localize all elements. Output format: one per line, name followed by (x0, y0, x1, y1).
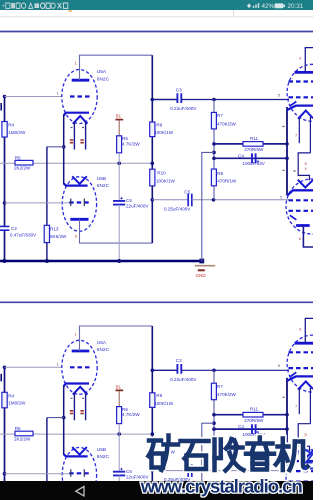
svg-text:3: 3 (299, 56, 302, 61)
svg-text:R8: R8 (156, 122, 162, 127)
op tube U5B envelope (62, 177, 96, 232)
resistor R4 (2, 122, 7, 138)
wire R7 R9 column (213, 100, 215, 200)
svg-text:5: 5 (278, 92, 281, 97)
svg-text:2K2/2W: 2K2/2W (14, 166, 31, 171)
capacitor C2 plates (0, 226, 9, 230)
svg-text:U5B: U5B (97, 176, 106, 182)
resistor R13 tail (44, 225, 49, 242)
node plate column C3 (151, 98, 155, 102)
node cathode net top (212, 142, 216, 146)
node C6 ground (117, 259, 121, 263)
svg-text:C5: C5 (184, 189, 190, 194)
resistor R10 (150, 169, 155, 186)
svg-text:R7: R7 (217, 113, 223, 118)
svg-text:6: 6 (75, 234, 78, 239)
svg-text:C6: C6 (126, 198, 132, 203)
node tail ground (45, 259, 49, 263)
V1 g2 dashes (289, 80, 314, 82)
resistor R6 (117, 136, 122, 153)
node grid bus mid (3, 201, 7, 205)
wire C3 to grid (181, 99, 289, 101)
wire heater legs V1 (299, 117, 310, 153)
svg-text:5K6/2W: 5K6/2W (50, 234, 67, 239)
U5A grid dashes (70, 95, 90, 97)
node R5 bus R8 (151, 162, 155, 166)
svg-text:R4: R4 (8, 123, 14, 128)
V2 g3 dashes (289, 210, 314, 212)
wire U5A heater legs (74, 122, 85, 150)
ground bus (0, 260, 202, 263)
node cathode net bot (212, 157, 216, 161)
svg-text:R9: R9 (217, 171, 223, 176)
wire gnd link (202, 152, 214, 261)
node grid bus ground (3, 259, 7, 263)
wire V2 plate lead (303, 226, 313, 248)
node grid bus top (3, 95, 7, 99)
wire C5 row (152, 199, 188, 201)
svg-text:B1: B1 (116, 114, 122, 119)
wire R11 row (214, 143, 287, 145)
svg-text:6N2C: 6N2C (97, 76, 110, 82)
svg-text:100K/1W: 100K/1W (156, 179, 176, 184)
wire plate column (151, 55, 153, 243)
wire heater bracket (298, 153, 310, 180)
wire tail vertical (46, 147, 48, 261)
svg-text:22uF/400V: 22uF/400V (126, 204, 149, 209)
wire input R5 row (0, 162, 152, 164)
node cathode junction (62, 145, 66, 149)
pin mark U5A (71, 127, 85, 129)
wire C3 row (152, 99, 177, 101)
svg-text:+: + (2, 4, 6, 11)
ground symbol (195, 265, 215, 267)
wire cathode link vertical (63, 115, 65, 185)
resistor R9 (211, 169, 216, 186)
status bar icons left (2, 3, 68, 10)
watermark hand-drawn (149, 436, 308, 471)
B+ rail top (0, 31, 313, 33)
op tube U5A envelope (62, 70, 97, 124)
wire cathode column (286, 107, 288, 196)
svg-text:0.22uF/400V: 0.22uF/400V (170, 106, 197, 111)
svg-text:R10: R10 (157, 171, 166, 176)
svg-text:6: 6 (299, 236, 302, 241)
banner www.crystalradio.cn (141, 479, 302, 496)
wire U5B grid (5, 202, 70, 204)
capacitor C6 plates (113, 201, 125, 205)
U5A heater (73, 116, 88, 124)
V1 heater (298, 111, 313, 119)
pin ticks U5B grid (71, 199, 85, 207)
U5B grid dashes (69, 201, 90, 203)
resistor R11 (243, 142, 263, 147)
svg-text:C3: C3 (176, 87, 182, 92)
wire left edge stub (0, 103, 2, 111)
node C3 R7 (212, 98, 216, 102)
U5A cathode (64, 113, 89, 116)
V2 g1 dashes (289, 199, 314, 201)
svg-text:7: 7 (295, 133, 298, 138)
V2 heater (298, 180, 313, 188)
wire R6 to C6 (118, 153, 120, 201)
U5B cathode (64, 183, 88, 185)
op tube V1 envelope (287, 64, 320, 121)
V1 plate (295, 71, 314, 74)
svg-text:C4: C4 (238, 153, 244, 158)
svg-text:C2: C2 (11, 226, 17, 231)
wire U5B plate lead (80, 219, 153, 243)
wire C6 to ground (118, 205, 120, 261)
svg-text:100K/1W: 100K/1W (154, 130, 174, 135)
svg-text:1M0/2W: 1M0/2W (8, 130, 26, 135)
V1 beam plate (290, 102, 297, 107)
status bar icons right (247, 3, 304, 10)
U5B heater (72, 176, 87, 184)
svg-text:6N2C: 6N2C (97, 183, 110, 189)
V1 g1 dashes (289, 96, 314, 98)
resistor R8 (150, 122, 155, 137)
svg-text:1: 1 (75, 61, 78, 66)
V2 plate (296, 224, 310, 227)
svg-text:R13: R13 (50, 227, 59, 232)
back triangle (76, 487, 84, 496)
resistor R5 (15, 160, 33, 165)
capacitor C4 plates (252, 153, 256, 163)
capacitor C3 plates (177, 93, 181, 103)
node cathode net gnd (212, 151, 216, 155)
svg-text:100uF/63V: 100uF/63V (242, 161, 265, 166)
node cathode column top (285, 142, 289, 146)
svg-text:470K/2W: 470K/2W (217, 121, 237, 126)
U5A plate (72, 79, 90, 82)
status bar (0, 0, 313, 10)
op tube V2 envelope (286, 179, 320, 234)
node C5 R9 (212, 198, 216, 202)
svg-text:GND: GND (196, 273, 207, 278)
wire cathode to tail (47, 146, 64, 148)
heater supply marks red (70, 140, 84, 143)
wire U5A plate lead (80, 55, 153, 80)
node ground end (199, 259, 204, 264)
svg-text:5: 5 (280, 194, 283, 199)
svg-text:4: 4 (305, 166, 308, 171)
svg-text:42%: 42% (262, 3, 275, 10)
V1 cathode (287, 106, 313, 110)
wire C4 row (214, 157, 287, 159)
svg-text:0.25uF/400V: 0.25uF/400V (164, 206, 191, 211)
power port B1 (116, 119, 124, 121)
photo top edge (0, 10, 313, 17)
V2 beam plate (290, 215, 297, 220)
android nav bar (0, 481, 313, 500)
wire V1 plate lead (305, 48, 313, 73)
node R5 bus C6 (117, 162, 121, 166)
resistor R7 (211, 112, 216, 128)
node plate column C5 (151, 198, 155, 202)
svg-text:U5A: U5A (97, 69, 107, 75)
logo mark (304, 450, 313, 469)
svg-text:R5: R5 (15, 155, 21, 160)
node cathode column bot (285, 157, 289, 161)
svg-text:270R/5W: 270R/5W (244, 147, 264, 152)
V2 cathode (287, 190, 313, 195)
svg-text:4.7K/2W: 4.7K/2W (122, 141, 140, 146)
svg-text:20:31: 20:31 (288, 3, 304, 10)
U5B plate (70, 218, 88, 221)
svg-text:0.47uF/630V: 0.47uF/630V (10, 232, 37, 237)
wire C5 to grid (192, 199, 289, 201)
capacitor C5 plates (188, 194, 192, 207)
wire grid bus left vertical (4, 97, 6, 262)
pin marks V1 V2 (283, 127, 296, 172)
svg-text:R11: R11 (250, 136, 259, 141)
wire U5A grid (5, 96, 62, 98)
svg-text:1: 1 (57, 91, 60, 96)
svg-text:470R/1W: 470R/1W (217, 179, 237, 184)
